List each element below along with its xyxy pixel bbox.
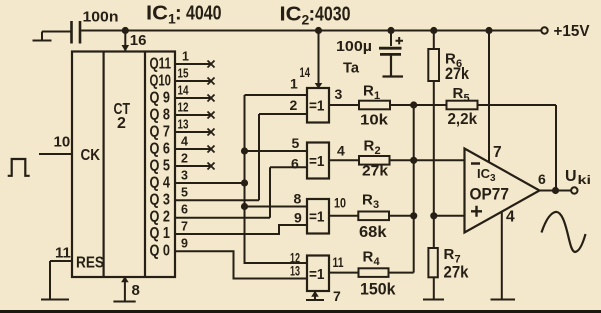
svg-text:1: 1 <box>182 50 189 64</box>
svg-text:OP77: OP77 <box>470 185 510 204</box>
svg-text:2: 2 <box>117 115 126 132</box>
svg-text:R: R <box>364 138 375 155</box>
svg-text:4: 4 <box>506 209 515 226</box>
svg-text:R: R <box>363 249 374 266</box>
svg-text:9: 9 <box>294 210 302 226</box>
svg-text:IC: IC <box>280 4 302 26</box>
svg-text:Q 6: Q 6 <box>150 141 171 158</box>
svg-text:R: R <box>362 192 373 209</box>
svg-text:+15V: +15V <box>554 23 590 40</box>
svg-text:CK: CK <box>81 147 101 164</box>
svg-text:4030: 4030 <box>315 4 351 26</box>
svg-text:4: 4 <box>181 135 188 149</box>
svg-text:4: 4 <box>374 256 381 268</box>
svg-text:Q 4: Q 4 <box>150 175 171 192</box>
svg-text:R: R <box>444 246 455 263</box>
svg-text:3: 3 <box>335 86 343 102</box>
svg-text:=1: =1 <box>309 209 325 226</box>
svg-text::: : <box>175 3 182 25</box>
svg-text:6: 6 <box>538 171 546 187</box>
svg-text:150k: 150k <box>360 280 396 299</box>
svg-text:12: 12 <box>178 101 189 115</box>
svg-text:6: 6 <box>181 203 188 217</box>
svg-text:7: 7 <box>333 288 341 304</box>
svg-text:10: 10 <box>334 195 346 211</box>
svg-text:14: 14 <box>300 64 311 80</box>
svg-text:7: 7 <box>181 220 188 234</box>
svg-text:RES: RES <box>76 255 104 272</box>
svg-text:10: 10 <box>54 134 71 151</box>
svg-text:2: 2 <box>375 145 381 157</box>
svg-text:13: 13 <box>290 263 300 279</box>
svg-text:2: 2 <box>181 152 188 166</box>
svg-text:=1: =1 <box>309 153 325 170</box>
svg-text:IC: IC <box>477 166 491 181</box>
svg-text:27k: 27k <box>362 163 389 180</box>
svg-text:8: 8 <box>132 282 140 299</box>
svg-text:9: 9 <box>181 237 188 251</box>
svg-text:U: U <box>565 168 577 185</box>
svg-text:5: 5 <box>292 135 300 151</box>
svg-text:Q 8: Q 8 <box>150 107 171 124</box>
svg-text:2,2k: 2,2k <box>448 111 478 128</box>
svg-text:R: R <box>453 85 464 102</box>
svg-text:=1: =1 <box>309 266 325 283</box>
svg-text:3: 3 <box>490 173 496 184</box>
svg-text:11: 11 <box>55 245 71 262</box>
svg-text:68k: 68k <box>359 224 387 241</box>
svg-text:14: 14 <box>178 84 189 98</box>
svg-text:Q 1: Q 1 <box>150 225 171 242</box>
svg-text:27k: 27k <box>444 263 470 281</box>
svg-text:11: 11 <box>333 254 344 270</box>
svg-text:2: 2 <box>290 97 298 113</box>
svg-text:13: 13 <box>178 118 189 132</box>
svg-text:27k: 27k <box>445 65 470 83</box>
svg-text:100µ: 100µ <box>336 38 372 55</box>
svg-text:Q 3: Q 3 <box>150 192 171 209</box>
svg-text:=1: =1 <box>309 98 325 115</box>
svg-text:100n: 100n <box>83 9 119 26</box>
svg-text:Ta: Ta <box>343 60 360 77</box>
svg-text:R: R <box>363 83 374 100</box>
svg-text:4040: 4040 <box>186 3 222 25</box>
svg-text:6: 6 <box>291 156 299 172</box>
svg-text:8: 8 <box>294 191 302 207</box>
svg-text:1: 1 <box>374 90 380 102</box>
svg-text:IC: IC <box>146 3 168 25</box>
svg-text:Q 9: Q 9 <box>150 90 171 107</box>
svg-text:4: 4 <box>337 143 345 159</box>
svg-text:1: 1 <box>290 76 298 92</box>
svg-text:Q 5: Q 5 <box>150 158 171 175</box>
svg-text:Q 2: Q 2 <box>150 209 171 226</box>
svg-text:3: 3 <box>373 199 379 211</box>
svg-text:7: 7 <box>493 144 502 161</box>
svg-text:Q10: Q10 <box>150 73 172 90</box>
svg-text:3: 3 <box>181 169 188 183</box>
svg-text:Q11: Q11 <box>150 56 172 73</box>
svg-text:Q 0: Q 0 <box>150 243 171 260</box>
svg-text:ki: ki <box>578 175 592 187</box>
svg-text:16: 16 <box>130 32 147 49</box>
svg-text:15: 15 <box>178 67 189 81</box>
svg-text:5: 5 <box>464 93 470 105</box>
svg-text:10k: 10k <box>360 112 389 129</box>
svg-text:Q 7: Q 7 <box>150 124 171 141</box>
svg-text:5: 5 <box>181 186 188 200</box>
